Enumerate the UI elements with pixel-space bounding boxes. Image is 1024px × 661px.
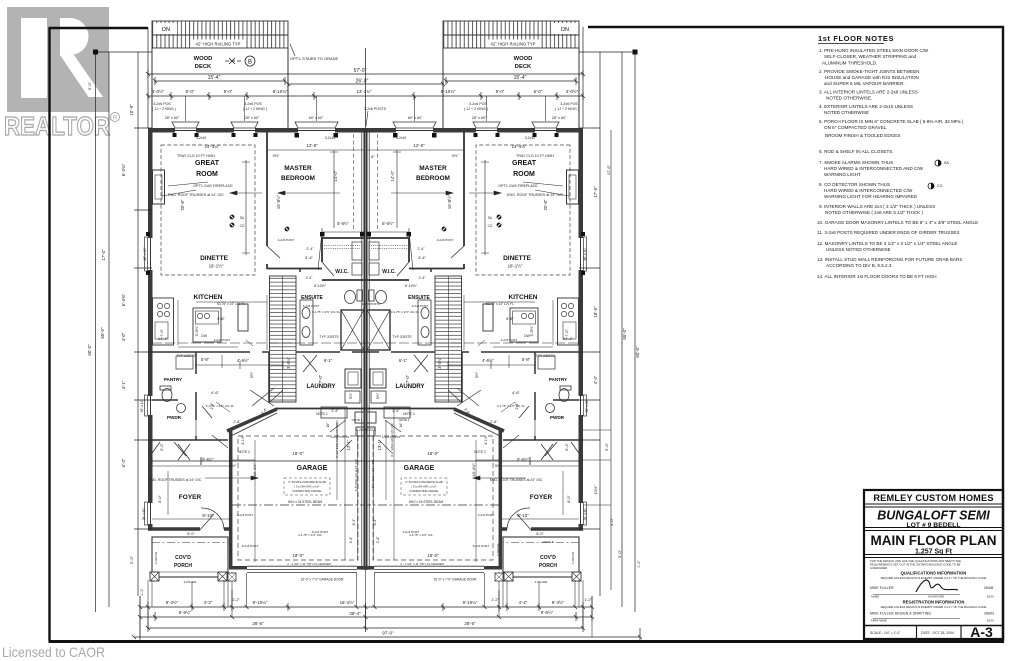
- svg-text:TYP JOISTS: TYP JOISTS: [392, 335, 412, 339]
- svg-text:20'-8": 20'-8": [180, 199, 185, 210]
- svg-text:14. ALL INTERIOR 1st FLOOR DO: 14. ALL INTERIOR 1st FLOOR DOORS TO BE 6…: [817, 274, 937, 279]
- svg-text:4-1.75" x 9.5" LVL: 4-1.75" x 9.5" LVL: [409, 533, 433, 537]
- svg-text:5'-6½": 5'-6½": [337, 221, 349, 226]
- window drop lines from top dim row: [186, 96, 546, 121]
- svg-text:( 1J + 2 KING ): ( 1J + 2 KING ): [464, 107, 488, 111]
- svg-text:COMPACTED GRAVEL: COMPACTED GRAVEL: [409, 489, 439, 493]
- svg-text:6'-1": 6'-1": [399, 358, 408, 363]
- svg-text:A-3: A-3: [970, 624, 993, 640]
- svg-text:4'-0": 4'-0": [121, 332, 126, 341]
- svg-text:MAIN FLOOR PLAN: MAIN FLOOR PLAN: [871, 533, 997, 548]
- railing note left deck: [192, 40, 244, 48]
- svg-text:HARD WIRED & INTERCONNECTED AN: HARD WIRED & INTERCONNECTED AND C/W: [824, 166, 924, 171]
- svg-text:13. INSTALL STUD WALL REINFOR: 13. INSTALL STUD WALL REINFORCING FOR FU…: [817, 257, 962, 262]
- svg-text:18'-0": 18'-0": [427, 553, 439, 558]
- svg-text:8'-10¾": 8'-10¾": [273, 89, 288, 94]
- svg-text:OPT'L GAS FIREPLACE: OPT'L GAS FIREPLACE: [193, 184, 233, 188]
- svg-text:2-2x8 DW: 2-2x8 DW: [571, 551, 575, 564]
- svg-text:TRAY CLG 10 FT HIGH: TRAY CLG 10 FT HIGH: [177, 154, 215, 158]
- svg-text:NOTE 1: NOTE 1: [399, 418, 410, 422]
- svg-text:5½": 5½": [376, 392, 380, 399]
- sheet border right: [1002, 26, 1004, 641]
- svg-text:CO: CO: [240, 224, 245, 228]
- svg-text:9'-8" ENG 2x6 at 16" O/C: 9'-8" ENG 2x6 at 16" O/C: [371, 459, 375, 492]
- svg-text:1'-2": 1'-2": [140, 588, 144, 596]
- svg-text:W10 x 26 STEEL BEAM: W10 x 26 STEEL BEAM: [288, 500, 323, 504]
- right unit geometry (mirrored): [152, 122, 587, 581]
- svg-text:15'-4": 15'-4": [208, 75, 221, 81]
- right dimension chains: [579, 50, 638, 613]
- svg-text:REALTOR: REALTOR: [4, 111, 110, 141]
- svg-text:3-1.75" x 9.5" LVL FL: 3-1.75" x 9.5" LVL FL: [497, 404, 525, 408]
- REALTOR watermark word: [4, 111, 120, 141]
- svg-text:R: R: [113, 116, 118, 122]
- extra foyer dim lines: [152, 466, 579, 515]
- svg-text:60'-0": 60'-0": [87, 344, 92, 356]
- svg-text:48" x 60": 48" x 60": [143, 246, 147, 260]
- svg-text:6'-1": 6'-1": [324, 358, 333, 363]
- svg-text:3-2x10: 3-2x10: [525, 136, 535, 140]
- svg-text:18'-6": 18'-6": [593, 306, 598, 318]
- svg-text:17'-0": 17'-0": [101, 249, 106, 261]
- svg-text:18'-4½": 18'-4½": [340, 600, 355, 605]
- svg-text:FIRM NAME: FIRM NAME: [871, 619, 887, 623]
- svg-text:5'-5½": 5'-5½": [530, 325, 534, 336]
- svg-text:NOTE 5: NOTE 5: [543, 540, 554, 544]
- svg-text:28" x 60": 28" x 60": [165, 116, 180, 120]
- svg-text:3'-0½": 3'-0½": [566, 89, 579, 94]
- svg-text:8'-3": 8'-3": [373, 518, 377, 526]
- 1st floor notes title: [818, 34, 894, 44]
- svg-text:5. PORCH FLOOR IS MIN 6" CONC: 5. PORCH FLOOR IS MIN 6" CONCRETE SLAB (…: [819, 119, 964, 124]
- svg-text:( 5 to 8% AIR ) on 6": ( 5 to 8% AIR ) on 6": [411, 485, 436, 489]
- svg-text:53.75" x 14" LVL FL: 53.75" x 14" LVL FL: [217, 302, 245, 306]
- svg-text:3'-4": 3'-4": [418, 255, 427, 260]
- svg-text:18'-4½": 18'-4½": [252, 463, 257, 477]
- DN label right deck: [554, 23, 576, 34]
- svg-text:18'-4½": 18'-4½": [471, 463, 476, 477]
- svg-text:HARD WIRED & INTERCONNECTED C/: HARD WIRED & INTERCONNECTED C/W: [824, 188, 913, 193]
- svg-text:TRAY CLG 10 FT HIGH: TRAY CLG 10 FT HIGH: [516, 154, 554, 158]
- svg-text:GARAGE: GARAGE: [404, 465, 435, 472]
- svg-text:DN: DN: [561, 27, 569, 33]
- svg-text:9'-10¼": 9'-10¼": [463, 600, 478, 605]
- svg-text:TYP JOISTS: TYP JOISTS: [176, 354, 196, 358]
- svg-text:DECK: DECK: [195, 64, 212, 70]
- party wall bottom rotated dims: [349, 459, 380, 544]
- svg-text:2. PROVIDE SMOKE-TIGHT JOINTS: 2. PROVIDE SMOKE-TIGHT JOINTS BETWEEN: [819, 69, 919, 74]
- svg-text:DN: DN: [162, 27, 170, 33]
- svg-text:5'-0": 5'-0": [496, 89, 505, 94]
- svg-text:5'-0": 5'-0": [536, 532, 544, 536]
- svg-text:6'-3": 6'-3": [121, 458, 126, 467]
- bottom dimension rows: [134, 590, 640, 640]
- svg-text:4-2x6 POST: 4-2x6 POST: [214, 338, 231, 342]
- svg-text:1,257 Sq Ft: 1,257 Sq Ft: [915, 549, 953, 556]
- svg-text:NOTED OTHERWISE ( 2x6 ARE 5 1/: NOTED OTHERWISE ( 2x6 ARE 5 1/2" THICK ): [825, 210, 923, 215]
- svg-text:( 1J + 2 KING ): ( 1J + 2 KING ): [152, 107, 176, 111]
- svg-text:2 PILLER: 2 PILLER: [535, 580, 549, 584]
- svg-text:14'-0": 14'-0": [333, 170, 338, 181]
- svg-text:2-2x8 DW: 2-2x8 DW: [154, 551, 158, 564]
- svg-text:14'-4¼": 14'-4¼": [205, 144, 220, 149]
- svg-text:2'-4": 2'-4": [306, 276, 314, 280]
- svg-text:2'-8": 2'-8": [233, 420, 241, 424]
- svg-text:8'-10½": 8'-10½": [314, 284, 327, 288]
- dashed verticals beside party wall: [354, 134, 378, 232]
- svg-text:NOTE 1: NOTE 1: [316, 412, 328, 416]
- svg-text:NAME: NAME: [871, 595, 879, 599]
- svg-text:4-2x6 POST: 4-2x6 POST: [237, 513, 254, 517]
- svg-text:4-2x6 POST: 4-2x6 POST: [412, 304, 429, 308]
- house edge verticals above wall: [148, 27, 583, 128]
- svg-text:NOTE 2: NOTE 2: [238, 450, 250, 454]
- svg-text:4-2x6 POST: 4-2x6 POST: [501, 338, 518, 342]
- svg-text:5'-8": 5'-8": [506, 317, 514, 321]
- svg-text:28'-6": 28'-6": [252, 621, 264, 626]
- svg-text:10. GARAGE DOOR MASONRY LINTE: 10. GARAGE DOOR MASONRY LINTELS TO BE 6"…: [817, 220, 978, 225]
- svg-text:3-2x10: 3-2x10: [325, 136, 335, 140]
- svg-text:and SUPER 6 MIL VAPOUR BARRIER: and SUPER 6 MIL VAPOUR BARRIER.: [824, 81, 905, 86]
- svg-text:TYP JOISTS: TYP JOISTS: [535, 354, 555, 358]
- svg-text:PANTRY: PANTRY: [164, 377, 182, 382]
- svg-text:2-2x8 DW: 2-2x8 DW: [229, 543, 233, 556]
- svg-text:A DESIGNER: A DESIGNER: [870, 566, 887, 570]
- svg-text:DW: DW: [524, 334, 530, 338]
- svg-text:LAUNDRY: LAUNDRY: [395, 384, 424, 390]
- top dimension segment row: [148, 92, 583, 100]
- svg-text:16": 16": [326, 422, 330, 428]
- svg-text:PORCH: PORCH: [174, 563, 192, 569]
- svg-text:2'-8": 2'-8": [210, 402, 214, 410]
- svg-text:7'-0": 7'-0": [160, 329, 164, 337]
- svg-text:15'-8½": 15'-8½": [447, 194, 452, 209]
- svg-text:14'-0": 14'-0": [390, 170, 395, 181]
- svg-text:3-2x10: 3-2x10: [196, 136, 206, 140]
- svg-text:CO: CO: [937, 184, 943, 188]
- svg-text:13'-1¾": 13'-1¾": [357, 89, 372, 94]
- svg-text:DINETTE: DINETTE: [503, 255, 531, 262]
- svg-text:26'-0": 26'-0": [356, 79, 369, 85]
- svg-text:55'-0": 55'-0": [100, 327, 105, 339]
- svg-text:5½": 5½": [250, 371, 254, 378]
- svg-text:GREAT: GREAT: [512, 160, 537, 167]
- svg-text:KITCHEN: KITCHEN: [509, 294, 538, 301]
- svg-text:WARNING LIGHT FOR HEARING IMPA: WARNING LIGHT FOR HEARING IMPAIRED: [824, 194, 918, 199]
- svg-text:3-1.75" x 9.5" LVL FL: 3-1.75" x 9.5" LVL FL: [312, 310, 340, 314]
- svg-text:60'-0": 60'-0": [635, 346, 640, 358]
- svg-text:55'-0": 55'-0": [622, 328, 627, 340]
- svg-text:8": 8": [371, 154, 375, 159]
- svg-text:11. 3-2x6 POSTS REQUIRED UNDE: 11. 3-2x6 POSTS REQUIRED UNDER ENDS OF G…: [817, 230, 960, 235]
- svg-text:1st FLOOR NOTES: 1st FLOOR NOTES: [818, 34, 894, 43]
- svg-text:42" HIGH RAILING TYP: 42" HIGH RAILING TYP: [196, 42, 241, 47]
- svg-text:3-1.75" x 9.5" LVL FL: 3-1.75" x 9.5" LVL FL: [391, 310, 419, 314]
- svg-text:3-2x10: 3-2x10: [396, 136, 406, 140]
- svg-text:3½": 3½": [273, 153, 281, 158]
- svg-text:5'-6½": 5'-6½": [382, 221, 394, 226]
- svg-text:8'-10": 8'-10": [517, 513, 529, 518]
- svg-text:9'-10¼": 9'-10¼": [253, 600, 268, 605]
- svg-text:4'-1½": 4'-1½": [241, 434, 245, 444]
- svg-text:6'-3": 6'-3": [160, 443, 164, 451]
- svg-text:3-2x6 POS: 3-2x6 POS: [153, 102, 171, 106]
- svg-text:5'-8": 5'-8": [201, 357, 210, 362]
- svg-text:2'-4": 2'-4": [392, 409, 400, 413]
- garage interior dim verticals: [255, 408, 476, 562]
- svg-text:5'-0": 5'-0": [224, 89, 233, 94]
- svg-text:28" x 42": 28" x 42": [585, 400, 589, 413]
- mid horizontal joist dim line: [152, 342, 579, 344]
- CO symbol in notes: [928, 183, 934, 189]
- svg-text:BUNGALOFT SEMI: BUNGALOFT SEMI: [877, 509, 990, 523]
- eng roof truss arrows: [205, 476, 526, 480]
- svg-text:6'-6½": 6'-6½": [202, 457, 214, 462]
- svg-text:FOYER: FOYER: [530, 494, 553, 501]
- svg-text:ROOM: ROOM: [513, 171, 535, 178]
- svg-text:WARNING LIGHT: WARNING LIGHT: [824, 172, 861, 177]
- wood deck right: stair/railing band: [443, 21, 579, 48]
- svg-text:2'-8": 2'-8": [515, 402, 519, 410]
- svg-text:MASTER: MASTER: [284, 165, 312, 172]
- sheet border bottom: [49, 640, 1005, 643]
- svg-text:9'-3½": 9'-3½": [552, 600, 565, 605]
- svg-text:ENSUITE: ENSUITE: [301, 295, 323, 301]
- svg-text:BEDROOM: BEDROOM: [416, 175, 450, 182]
- svg-text:ENG. ROOF TRUSSES at 24" O/C: ENG. ROOF TRUSSES at 24" O/C: [490, 478, 543, 482]
- svg-text:8'-10": 8'-10": [202, 513, 214, 518]
- svg-text:13'-1": 13'-1": [346, 439, 351, 450]
- svg-text:2 - 1 3/4" x 11 7/8" LVL HEADE: 2 - 1 3/4" x 11 7/8" LVL HEADER: [287, 562, 331, 566]
- svg-text:17'-6": 17'-6": [606, 164, 611, 175]
- svg-text:4-2x6 POSTS: 4-2x6 POSTS: [331, 435, 350, 439]
- svg-text:4-2x6 POSTS: 4-2x6 POSTS: [356, 428, 376, 432]
- svg-text:8-2x4 POST: 8-2x4 POST: [242, 544, 259, 548]
- svg-text:4-2x6 POST: 4-2x6 POST: [478, 513, 495, 517]
- svg-text:BEDROOM: BEDROOM: [281, 175, 315, 182]
- svg-text:3'-4": 3'-4": [376, 536, 380, 544]
- svg-text:3'-4½": 3'-4½": [286, 357, 291, 369]
- svg-text:( 1J + 2 KING ): ( 1J + 2 KING ): [243, 107, 267, 111]
- svg-text:6" 30 MPa CONCRETE SLAB: 6" 30 MPa CONCRETE SLAB: [288, 480, 325, 484]
- svg-text:10½": 10½": [593, 485, 598, 495]
- svg-text:OPT'L STAIRS TO GRADE: OPT'L STAIRS TO GRADE: [290, 56, 339, 61]
- deck outlines: [152, 48, 579, 128]
- svg-text:CO: CO: [488, 224, 493, 228]
- svg-text:8'-0": 8'-0": [567, 495, 571, 503]
- svg-text:18'-1½": 18'-1½": [508, 264, 523, 269]
- svg-text:3. ALL INTERIOR LINTELS ARE 2: 3. ALL INTERIOR LINTELS ARE 2-2x8 UNLESS: [819, 90, 918, 95]
- railing note right deck: [487, 40, 539, 48]
- svg-text:7. SMOKE ALARMS SHOWN THUS: 7. SMOKE ALARMS SHOWN THUS: [819, 160, 893, 165]
- svg-text:1'-2": 1'-2": [491, 598, 499, 602]
- svg-text:4. EXTERIOR LINTELS ARE 2-2x1: 4. EXTERIOR LINTELS ARE 2-2x10 UNLESS: [819, 104, 913, 109]
- svg-text:2'-4": 2'-4": [306, 247, 314, 251]
- svg-text:8'-3": 8'-3": [352, 518, 356, 526]
- svg-text:17'-6": 17'-6": [593, 186, 598, 198]
- svg-text:6'-3¾": 6'-3¾": [121, 293, 126, 306]
- svg-text:5'-8": 5'-8": [522, 357, 531, 362]
- svg-text:3'-4": 3'-4": [305, 255, 314, 260]
- svg-text:4'-2": 4'-2": [519, 600, 528, 605]
- svg-text:5'-0": 5'-0": [617, 549, 622, 558]
- DN label left deck: [155, 23, 177, 34]
- svg-text:ACCORDING TO DIV B, 9.5.2.3: ACCORDING TO DIV B, 9.5.2.3: [826, 263, 892, 268]
- svg-text:18'-0": 18'-0": [292, 553, 304, 558]
- bottom extension lines: [140, 570, 592, 637]
- svg-text:57'-0": 57'-0": [354, 68, 367, 74]
- svg-text:28" x 60": 28" x 60": [552, 116, 567, 120]
- svg-text:B: B: [248, 60, 252, 66]
- svg-text:ENG. ROOF TRUSSES at 24" O/C: ENG. ROOF TRUSSES at 24" O/C: [507, 193, 563, 197]
- svg-text:4'-0": 4'-0": [609, 517, 614, 526]
- left unit geometry: [145, 122, 580, 581]
- notes body: [817, 48, 978, 279]
- svg-text:3-2x6 POS: 3-2x6 POS: [244, 102, 262, 106]
- svg-text:HOUSE and GARAGE with R22 INSU: HOUSE and GARAGE with R22 INSULATION: [825, 75, 919, 80]
- svg-text:SIGNATURE: SIGNATURE: [928, 595, 944, 599]
- svg-text:9'-5½": 9'-5½": [179, 610, 192, 615]
- wood deck left: stair/railing band: [152, 21, 288, 48]
- svg-text:3-2x6 POSTS: 3-2x6 POSTS: [364, 107, 387, 111]
- svg-text:4'-1": 4'-1": [121, 380, 126, 389]
- svg-text:6" 30 MPa CONCRETE SLAB: 6" 30 MPa CONCRETE SLAB: [405, 480, 442, 484]
- svg-text:9'-8" ENG 2x6 at 16" O/C: 9'-8" ENG 2x6 at 16" O/C: [354, 459, 358, 492]
- porch rotated texts: [154, 543, 575, 564]
- left dimension chains: [93, 50, 152, 613]
- svg-text:1'-2": 1'-2": [584, 598, 592, 602]
- svg-text:REQUIRE UNLESS DESIGN IS EXEMP: REQUIRE UNLESS DESIGN IS EXEMPT UNDER 3.…: [881, 576, 987, 580]
- svg-text:2'-4": 2'-4": [417, 247, 425, 251]
- svg-text:3'-4": 3'-4": [349, 536, 353, 544]
- svg-text:NOTE 1: NOTE 1: [352, 418, 363, 422]
- svg-text:ROOM: ROOM: [196, 171, 218, 178]
- svg-text:20'-8": 20'-8": [543, 199, 548, 210]
- svg-text:SELF-CLOSER, WEATHER STRIPPING: SELF-CLOSER, WEATHER STRIPPING and: [824, 54, 917, 59]
- svg-text:GARAGE: GARAGE: [297, 465, 328, 472]
- svg-text:3'-0½": 3'-0½": [152, 89, 165, 94]
- room labels left unit: [149, 143, 376, 584]
- svg-text:PWDR: PWDR: [550, 415, 565, 420]
- svg-text:ENSUITE: ENSUITE: [408, 295, 430, 301]
- svg-text:6'-3": 6'-3": [565, 443, 569, 451]
- svg-text:2'-8": 2'-8": [490, 420, 498, 424]
- svg-text:BCIN: BCIN: [987, 595, 994, 599]
- svg-text:8'-10½": 8'-10½": [405, 284, 418, 288]
- svg-text:1'-2": 1'-2": [637, 560, 641, 568]
- svg-text:8. CO DETECTOR SHOWN THUS: 8. CO DETECTOR SHOWN THUS: [819, 182, 890, 187]
- svg-text:7'-0": 7'-0": [318, 374, 323, 383]
- svg-text:TYP JOISTS: TYP JOISTS: [319, 335, 339, 339]
- svg-text:REMLEY CUSTOM HOMES: REMLEY CUSTOM HOMES: [873, 493, 993, 503]
- svg-text:18'-0": 18'-0": [427, 451, 439, 456]
- svg-text:4'-1½": 4'-1½": [484, 434, 488, 444]
- sheet border top segments: [49, 27, 1005, 28]
- svg-text:2'-4": 2'-4": [331, 409, 339, 413]
- svg-text:9. INTERIOR WALLS ARE 2x4 ( 3: 9. INTERIOR WALLS ARE 2x4 ( 3 1/2" THICK…: [819, 204, 935, 209]
- svg-text:12'-8": 12'-8": [306, 143, 318, 148]
- svg-text:16'-0" x 7'-0" GARAGE DOOR: 16'-0" x 7'-0" GARAGE DOOR: [434, 578, 478, 582]
- svg-text:5'-5½": 5'-5½": [195, 325, 199, 336]
- svg-text:BROOM FINISH & TOOLED EDGES: BROOM FINISH & TOOLED EDGES: [825, 133, 900, 138]
- svg-text:14'-4¼": 14'-4¼": [512, 144, 527, 149]
- svg-text:ENG. ROOF TRUSSES at 24" O/C: ENG. ROOF TRUSSES at 24" O/C: [168, 193, 224, 197]
- svg-text:36893: 36893: [984, 612, 994, 616]
- svg-text:LAUNDRY: LAUNDRY: [306, 384, 335, 390]
- svg-text:28'-6": 28'-6": [464, 621, 476, 626]
- svg-text:7'-0": 7'-0": [405, 374, 410, 383]
- svg-text:5½": 5½": [495, 464, 502, 468]
- svg-text:28" x 60": 28" x 60": [245, 116, 260, 120]
- svg-text:2 - 1 3/4" x 11 7/8" LVL HEADE: 2 - 1 3/4" x 11 7/8" LVL HEADER: [400, 562, 444, 566]
- svg-text:( 5 to 8% AIR ) on 6": ( 5 to 8% AIR ) on 6": [294, 485, 319, 489]
- svg-text:4'-6½": 4'-6½": [482, 358, 494, 363]
- svg-text:5½": 5½": [230, 464, 237, 468]
- svg-text:Licensed to CAOR: Licensed to CAOR: [2, 644, 105, 660]
- svg-text:4'-6": 4'-6": [211, 390, 220, 395]
- svg-text:2 PILLER: 2 PILLER: [184, 580, 198, 584]
- svg-text:5'-0": 5'-0": [129, 555, 134, 564]
- svg-text:28" x 60": 28" x 60": [142, 508, 146, 521]
- svg-text:8'-0": 8'-0": [158, 495, 162, 503]
- section marker B: [225, 56, 255, 66]
- svg-text:12. MASONRY LINTELS TO BE 3 1: 12. MASONRY LINTELS TO BE 3 1/2" x 3 1/2…: [817, 241, 957, 246]
- svg-text:8-2x4 POST: 8-2x4 POST: [473, 544, 490, 548]
- svg-text:10'-9": 10'-9": [129, 104, 134, 116]
- svg-text:3'-4½": 3'-4½": [437, 357, 442, 369]
- svg-text:PANTRY: PANTRY: [549, 377, 567, 382]
- top dimension 57ft: [148, 70, 583, 78]
- rotated labels right unit: [376, 170, 589, 520]
- extra kitchen dim lines: [178, 295, 553, 350]
- svg-text:2'-4": 2'-4": [419, 276, 427, 280]
- post labels row: [152, 102, 579, 120]
- svg-text:MIKE FULLER: MIKE FULLER: [870, 586, 894, 590]
- svg-text:7'-0": 7'-0": [565, 329, 569, 337]
- svg-text:4'-4": 4'-4": [593, 375, 598, 384]
- svg-text:3-2x6 POS: 3-2x6 POS: [469, 102, 487, 106]
- garage chamfer inner lines: [231, 413, 500, 436]
- svg-text:28" x 60": 28" x 60": [472, 116, 487, 120]
- svg-text:15'-4": 15'-4": [514, 75, 527, 81]
- deck dim 15-4 left: [155, 77, 285, 85]
- svg-text:FOYER: FOYER: [179, 494, 202, 501]
- svg-text:4-2x6 POST: 4-2x6 POST: [437, 238, 454, 242]
- svg-text:COMPACTED GRAVEL: COMPACTED GRAVEL: [292, 489, 322, 493]
- svg-text:16": 16": [399, 422, 403, 428]
- svg-text:9'-3½": 9'-3½": [166, 600, 179, 605]
- svg-text:6'-6½": 6'-6½": [517, 457, 529, 462]
- svg-text:W.I.C.: W.I.C.: [335, 269, 349, 275]
- svg-text:6'-0": 6'-0": [87, 81, 92, 90]
- svg-text:5'-0": 5'-0": [186, 89, 195, 94]
- svg-text:28" x 60": 28" x 60": [583, 508, 587, 521]
- center furnace boxes between laundries: [355, 412, 376, 436]
- svg-text:5'-8": 5'-8": [217, 317, 225, 321]
- svg-text:6. ROD & SHELF IN ALL CLOSETS: 6. ROD & SHELF IN ALL CLOSETS.: [819, 149, 894, 154]
- svg-text:48" x 60": 48" x 60": [583, 246, 587, 260]
- deck dim 15-4 right: [446, 77, 576, 85]
- svg-text:3-2x6 POS: 3-2x6 POS: [560, 102, 578, 106]
- svg-text:38'-4": 38'-4": [349, 611, 361, 616]
- svg-text:3½": 3½": [452, 153, 460, 158]
- svg-text:W.I.C.: W.I.C.: [382, 269, 396, 275]
- svg-text:DECK: DECK: [515, 64, 532, 70]
- svg-text:8'-10¾": 8'-10¾": [441, 89, 456, 94]
- svg-text:PWDR: PWDR: [167, 415, 182, 420]
- svg-text:SCALE : 1/4" = 1'-0": SCALE : 1/4" = 1'-0": [870, 631, 901, 635]
- svg-text:18'-0": 18'-0": [292, 451, 304, 456]
